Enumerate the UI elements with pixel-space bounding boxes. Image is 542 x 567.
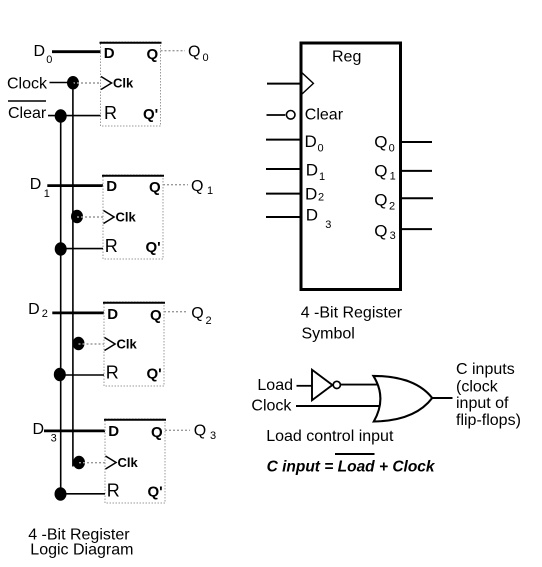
label D1 bbox=[30, 176, 50, 200]
svg-text:D: D bbox=[107, 306, 118, 323]
svg-text:R: R bbox=[104, 103, 117, 123]
svg-text:R: R bbox=[106, 362, 119, 382]
pin Q0 wire (Reg) bbox=[401, 141, 432, 143]
svg-text:3: 3 bbox=[210, 430, 216, 442]
wire Load to inverter bbox=[297, 385, 313, 387]
svg-text:flip-flops): flip-flops) bbox=[456, 412, 521, 429]
svg-text:Load control input: Load control input bbox=[266, 428, 394, 445]
svg-text:Q: Q bbox=[188, 44, 200, 61]
svg-text:R: R bbox=[107, 480, 120, 500]
label Q3 (Reg) bbox=[374, 222, 396, 243]
label Q0 (Reg) bbox=[374, 133, 395, 155]
svg-text:D: D bbox=[33, 421, 45, 438]
pin Q1 wire (Reg) bbox=[401, 170, 432, 172]
wire D0 input bbox=[52, 50, 101, 53]
label Clear (active-low overbar) bbox=[8, 101, 47, 122]
svg-text:Q: Q bbox=[149, 179, 161, 196]
svg-text:D: D bbox=[30, 176, 42, 193]
svg-text:Reg: Reg bbox=[332, 49, 361, 66]
svg-text:Logic Diagram: Logic Diagram bbox=[30, 541, 133, 558]
register U1 symbol box bbox=[301, 43, 401, 290]
svg-text:0: 0 bbox=[389, 143, 395, 155]
svg-text:2: 2 bbox=[206, 315, 212, 327]
caption logic diagram bbox=[28, 526, 133, 558]
svg-text:R: R bbox=[105, 236, 118, 256]
equation C input = NOT Load + Clock bbox=[267, 454, 436, 476]
svg-text:Q: Q bbox=[150, 307, 162, 324]
svg-text:Symbol: Symbol bbox=[302, 325, 355, 342]
junction clock FF3 bbox=[73, 456, 85, 469]
label Q2 bbox=[191, 305, 211, 327]
pin D2 wire (Reg) bbox=[266, 193, 301, 195]
svg-text:Q: Q bbox=[374, 162, 387, 181]
svg-text:0: 0 bbox=[203, 52, 209, 64]
wire clock to FF1 Clk pin bbox=[77, 216, 103, 218]
svg-text:Q': Q' bbox=[143, 106, 158, 123]
svg-text:3: 3 bbox=[325, 219, 331, 231]
wire clear bus vertical bbox=[60, 116, 62, 494]
svg-text:Clear: Clear bbox=[305, 107, 344, 124]
svg-text:1: 1 bbox=[44, 188, 50, 200]
wire Clock to OR gate bbox=[296, 405, 383, 407]
label C inputs annotation bbox=[456, 361, 521, 429]
pin D1 wire (Reg) bbox=[266, 168, 301, 170]
wire D1 input bbox=[47, 184, 103, 187]
svg-text:Clk: Clk bbox=[117, 337, 138, 352]
pin Clear bubble (Reg) bbox=[286, 111, 295, 120]
svg-text:Clk: Clk bbox=[118, 455, 139, 470]
wire clock to FF3 Clk pin bbox=[79, 462, 105, 464]
label Q2 (Reg) bbox=[374, 191, 395, 213]
label D0 bbox=[34, 43, 53, 66]
flip-flop FF2 bbox=[103, 302, 165, 386]
svg-text:2: 2 bbox=[318, 191, 324, 203]
svg-text:Q': Q' bbox=[148, 483, 163, 500]
label D1 (Reg) bbox=[306, 161, 325, 184]
wire inverter to OR gate bbox=[341, 384, 379, 386]
svg-text:D: D bbox=[306, 161, 318, 180]
pin D3 wire (Reg) bbox=[266, 216, 301, 218]
wire D3 input bbox=[44, 429, 106, 432]
wire clear to FF1 R pin bbox=[61, 248, 103, 250]
label D2 (Reg) bbox=[305, 185, 324, 204]
wire clear to FF2 R pin bbox=[61, 374, 104, 376]
svg-text:D: D bbox=[28, 301, 40, 318]
svg-text:input of: input of bbox=[456, 395, 509, 412]
wire Q1 output bbox=[163, 184, 188, 186]
pin Clear wire (Reg) bbox=[267, 114, 286, 116]
svg-text:Q: Q bbox=[151, 424, 163, 441]
pin Clock edge-triangle (Reg) bbox=[302, 73, 313, 94]
svg-text:3: 3 bbox=[51, 433, 57, 445]
svg-text:Q: Q bbox=[147, 46, 159, 63]
wire clock to FF2 Clk pin bbox=[79, 343, 105, 345]
wire Q2 output bbox=[164, 311, 188, 313]
junction clear FF0 bbox=[55, 109, 67, 122]
label Q0 bbox=[188, 44, 209, 64]
svg-text:Q': Q' bbox=[146, 239, 161, 256]
label D2 bbox=[28, 301, 48, 320]
inverter (NOT gate) bbox=[312, 370, 332, 400]
svg-text:D: D bbox=[306, 206, 318, 225]
svg-text:D: D bbox=[104, 45, 115, 62]
junction clear FF1 bbox=[55, 242, 67, 255]
svg-text:C input = Load + Clock: C input = Load + Clock bbox=[267, 459, 436, 476]
svg-text:Q': Q' bbox=[147, 365, 162, 382]
svg-text:3: 3 bbox=[390, 230, 396, 242]
svg-text:2: 2 bbox=[42, 308, 48, 320]
svg-text:1: 1 bbox=[207, 185, 213, 197]
wire clock to FF0 Clk pin bbox=[73, 82, 101, 84]
OR gate U2 bbox=[373, 376, 432, 422]
junction clock FF1 bbox=[71, 210, 83, 223]
label Q1 (Reg) bbox=[374, 162, 396, 183]
svg-text:Clear: Clear bbox=[8, 105, 47, 122]
svg-text:D: D bbox=[106, 178, 117, 195]
pin D0 wire (Reg) bbox=[266, 139, 301, 141]
svg-text:Q: Q bbox=[191, 178, 203, 195]
label Q1 bbox=[191, 178, 213, 197]
svg-text:1: 1 bbox=[319, 171, 325, 183]
svg-text:Clk: Clk bbox=[116, 210, 137, 225]
svg-text:D: D bbox=[34, 43, 46, 60]
svg-text:D: D bbox=[305, 132, 317, 151]
label Q3 bbox=[194, 423, 216, 443]
pin Q3 wire (Reg) bbox=[401, 228, 432, 230]
junction clock FF0 bbox=[67, 76, 79, 89]
label D3 bbox=[33, 421, 57, 445]
wire clear to FF3 R pin bbox=[61, 493, 105, 495]
label D0 (Reg) bbox=[305, 132, 324, 155]
svg-text:C inputs: C inputs bbox=[456, 361, 515, 378]
flip-flop FF1 bbox=[102, 175, 164, 259]
wire Q3 output bbox=[165, 429, 190, 431]
pin Clock wire (Reg) bbox=[267, 83, 301, 85]
svg-text:Q: Q bbox=[374, 133, 387, 152]
svg-text:D: D bbox=[108, 423, 119, 440]
svg-text:0: 0 bbox=[318, 143, 324, 155]
svg-text:Q: Q bbox=[191, 305, 203, 322]
junction clear FF2 bbox=[54, 368, 66, 381]
svg-text:Q: Q bbox=[374, 191, 387, 210]
svg-text:Q: Q bbox=[194, 423, 206, 440]
svg-text:Clock: Clock bbox=[251, 397, 292, 414]
wire Clock to junction bbox=[50, 82, 74, 84]
svg-text:D: D bbox=[305, 185, 317, 204]
svg-text:0: 0 bbox=[46, 54, 52, 66]
svg-text:2: 2 bbox=[389, 200, 395, 212]
flip-flop FF3 bbox=[104, 419, 166, 503]
label D3 (Reg) bbox=[306, 206, 332, 231]
wire clock bus vertical bbox=[72, 83, 74, 467]
svg-text:Clock: Clock bbox=[7, 75, 48, 92]
svg-text:Q: Q bbox=[374, 222, 387, 241]
svg-text:Load: Load bbox=[257, 377, 293, 394]
svg-text:4 -Bit Register: 4 -Bit Register bbox=[301, 305, 403, 322]
svg-text:Clk: Clk bbox=[113, 76, 134, 91]
junction clock FF2 bbox=[73, 337, 85, 350]
pin Q2 wire (Reg) bbox=[401, 197, 433, 199]
wire OR gate output bbox=[432, 397, 453, 399]
svg-text:1: 1 bbox=[390, 171, 396, 183]
wire Q0 output bbox=[161, 50, 186, 52]
junction clear FF3 bbox=[55, 487, 67, 500]
wire Clear to FF0 R pin bbox=[48, 115, 101, 117]
svg-text:(clock: (clock bbox=[456, 378, 499, 395]
inverter output bubble bbox=[333, 381, 340, 388]
wire D2 input bbox=[52, 311, 104, 314]
caption register symbol bbox=[301, 305, 403, 343]
flip-flop FF0 bbox=[100, 42, 162, 126]
